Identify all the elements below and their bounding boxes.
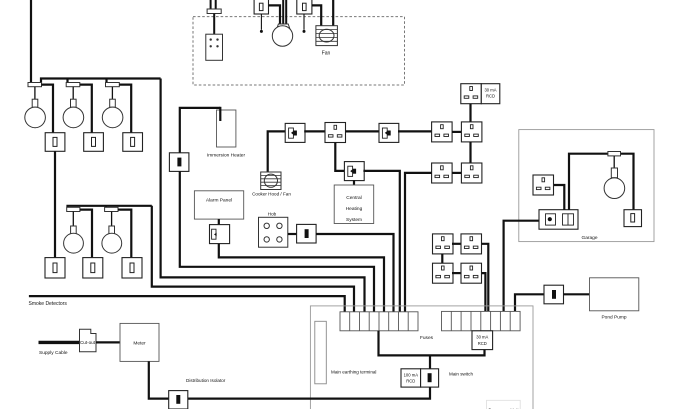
ceiling rose R4 bbox=[67, 207, 80, 211]
junction box JB1 bbox=[206, 34, 223, 60]
pond pump bbox=[590, 278, 639, 311]
svg-text:Pond Pump: Pond Pump bbox=[601, 315, 626, 321]
fused connection unit FCU1 bbox=[210, 225, 230, 244]
node pull knob S8 bbox=[303, 30, 306, 33]
wire rose R2 to switch S2 bbox=[80, 85, 92, 133]
wire lighting circuit 2 ceiling bus bbox=[68, 206, 152, 208]
socket SK11 garage bbox=[533, 175, 554, 195]
wire SK8 to fuses bbox=[482, 244, 489, 312]
wire switch S10 to socket SK2 bbox=[398, 130, 432, 132]
lamp L5 bbox=[102, 226, 122, 253]
socket SK9 bbox=[433, 263, 454, 283]
wire CH switch to boiler bbox=[353, 180, 355, 185]
wire immersion heater element stub bbox=[219, 107, 221, 121]
switch S1 bbox=[45, 133, 65, 152]
wire FCU2 to socket SK1 bbox=[304, 130, 325, 132]
socket SK2 bbox=[432, 122, 453, 142]
garage enclosure bbox=[519, 130, 654, 242]
ceiling rose R6 bbox=[207, 9, 221, 14]
wire rose R4 to switch S5 bbox=[80, 210, 92, 258]
wire SK9 to SK10 bbox=[452, 272, 461, 274]
supply cable bbox=[39, 341, 80, 344]
garage consumer unit bbox=[539, 210, 578, 230]
RCD 30mA unit bbox=[472, 331, 493, 350]
switch S13 garage light bbox=[624, 210, 642, 227]
immersion heater bbox=[217, 110, 236, 147]
lamp L2 bbox=[63, 99, 84, 128]
switch S14 pond pump bbox=[544, 285, 564, 304]
switch S4 bbox=[45, 258, 65, 278]
cut-out bbox=[80, 329, 97, 352]
wire rose R6 to heater unit bbox=[213, 14, 215, 35]
wire lighting circuit 1 return to fuses bbox=[161, 79, 365, 312]
wire switch S7 to lamp L6 bbox=[269, 5, 281, 24]
wire lighting circuit 2 return to fuses bbox=[152, 206, 354, 312]
cooker hood fan bbox=[261, 172, 281, 190]
ceiling rose R1 bbox=[28, 83, 42, 87]
wire bathroom rose feeds bbox=[211, 0, 216, 9]
ceiling rose R3 bbox=[106, 83, 120, 87]
wire main switch to meter tail bbox=[188, 387, 430, 399]
svg-text:Smoke Detectors: Smoke Detectors bbox=[29, 301, 68, 307]
ceiling rose R5 bbox=[105, 207, 118, 211]
svg-text:Fan: Fan bbox=[322, 51, 331, 57]
svg-text:Immersion Heater: Immersion Heater bbox=[207, 153, 246, 159]
socket SK5 bbox=[432, 163, 453, 183]
wire lamp L1 drop bbox=[34, 87, 36, 100]
ceiling rose R2 bbox=[66, 83, 80, 87]
socket SK7 bbox=[433, 234, 454, 254]
bathroom zone dashed boundary bbox=[193, 17, 405, 85]
wire lighting circuit 1 feed drop bbox=[30, 0, 32, 83]
wire alarm panel to FCU bbox=[218, 219, 220, 225]
wire switch S8 to fan bbox=[312, 5, 321, 25]
svg-text:Garage: Garage bbox=[582, 235, 598, 241]
svg-text:Meter: Meter bbox=[133, 341, 146, 347]
switch S11 central heating bbox=[344, 162, 364, 181]
wire switch S1 down to switch S4 bbox=[54, 151, 56, 257]
svg-text:Central: Central bbox=[346, 195, 361, 201]
central heating system bbox=[334, 185, 374, 224]
ceiling rose R7 bbox=[608, 152, 621, 156]
socket SK4 bbox=[461, 122, 482, 142]
main switch Q1 bbox=[421, 369, 439, 387]
fuse bank A bbox=[340, 312, 418, 331]
wire busbar bbox=[379, 331, 485, 369]
wire cooker hood spur bbox=[268, 131, 286, 172]
label Central Heating System bbox=[346, 195, 363, 223]
wire lamp L7 drop bbox=[613, 156, 615, 168]
wire socket SK1 down to CH switch bbox=[335, 143, 344, 171]
wire SK7 to SK8 bbox=[452, 243, 461, 245]
svg-text:100 mA: 100 mA bbox=[404, 372, 419, 377]
wire socket SK1 to switch S10 bbox=[346, 130, 380, 132]
wire lamp L4 drop bbox=[72, 212, 74, 227]
svg-text:30 mA: 30 mA bbox=[484, 88, 496, 93]
svg-text:System: System bbox=[346, 217, 362, 223]
fuse bank B bbox=[442, 311, 521, 330]
wire meter to isolator bbox=[149, 361, 169, 398]
wire lamp L3 drop bbox=[111, 87, 113, 100]
svg-text:Main earthing terminal: Main earthing terminal bbox=[331, 370, 376, 375]
switch S10 kitchen FCU bbox=[379, 123, 399, 142]
RCD 100mA unit bbox=[401, 369, 421, 387]
label box consumer unit cut off bbox=[487, 400, 521, 409]
fused connection unit FCU2 cooker hood bbox=[285, 123, 305, 142]
wire lamp L6 bundle bbox=[283, 0, 286, 24]
svg-text:RCD: RCD bbox=[486, 94, 495, 99]
meter bbox=[120, 323, 159, 361]
wire SK3 to SK4 bbox=[469, 104, 471, 122]
wire lighting circuit 1 ceiling bus bbox=[41, 79, 161, 84]
wire CH switch to fuses bbox=[363, 171, 399, 312]
lamp L4 bbox=[64, 226, 84, 253]
label 30 mA RCD box bbox=[481, 84, 500, 104]
lamp L1 bbox=[25, 99, 46, 128]
wire immersion heater feed loop bbox=[180, 108, 221, 153]
svg-text:Fuses: Fuses bbox=[420, 335, 434, 341]
socket SK8 bbox=[461, 234, 482, 254]
socket SK10 bbox=[461, 263, 482, 283]
consumer unit enclosure bbox=[310, 306, 533, 409]
hob bbox=[259, 217, 288, 247]
wire hob to cooker switch bbox=[288, 233, 297, 235]
alarm panel bbox=[194, 191, 243, 219]
wire fan feed bbox=[332, 0, 334, 26]
wire rose R3 to switch S3 bbox=[119, 85, 131, 133]
wire pond pump circuit bbox=[515, 294, 544, 311]
wire pull cord S8 bbox=[303, 14, 305, 30]
switch S6 bbox=[122, 258, 142, 278]
wire SK5 to SK6 bbox=[452, 172, 461, 174]
svg-text:Alarm Panel: Alarm Panel bbox=[206, 198, 232, 204]
wire lamp L2 drop bbox=[72, 87, 74, 100]
socket SK3 RCD protected bbox=[461, 84, 482, 104]
switch S7 pull-cord bbox=[254, 0, 268, 14]
wire SK7 to SK9 bbox=[441, 254, 443, 263]
svg-text:Cut-out: Cut-out bbox=[80, 340, 96, 345]
socket SK1 bbox=[325, 123, 346, 143]
lamp L3 bbox=[102, 99, 123, 128]
svg-text:30 mA: 30 mA bbox=[476, 335, 488, 340]
wire lamp L5 drop bbox=[111, 212, 113, 227]
svg-text:Cooker Hood / Fan: Cooker Hood / Fan bbox=[252, 192, 291, 197]
wire garage socket spur bbox=[554, 185, 565, 210]
svg-text:Main switch: Main switch bbox=[449, 371, 473, 376]
wire switch S14 to pond pump bbox=[564, 293, 590, 295]
switch S9 immersion isolator bbox=[169, 153, 189, 172]
socket SK6 bbox=[461, 163, 482, 183]
lamp L6 bbox=[272, 24, 292, 46]
switch S2 bbox=[84, 133, 104, 152]
fan M1 bbox=[316, 26, 338, 46]
switch S12 cooker bbox=[297, 224, 317, 243]
wire upstairs ring to fuses bbox=[405, 173, 432, 312]
main earthing terminal bar bbox=[315, 321, 327, 384]
svg-text:Heating: Heating bbox=[346, 206, 363, 212]
wire SK10 to fuses bbox=[482, 273, 486, 311]
switch S8 pull-cord bbox=[297, 0, 312, 14]
switch S3 bbox=[123, 133, 143, 152]
wire alarm circuit to fuses bbox=[219, 244, 384, 312]
svg-text:Supply Cable: Supply Cable bbox=[39, 350, 68, 356]
wire cut-out to meter bbox=[96, 341, 120, 343]
switch S15 distribution isolator bbox=[169, 391, 188, 409]
wire pull cord S7 bbox=[260, 14, 262, 30]
svg-text:Hob: Hob bbox=[268, 212, 277, 217]
svg-text:RCD: RCD bbox=[478, 341, 487, 346]
wire SK4 to SK6 bbox=[469, 142, 471, 163]
svg-text:Distribution Isolator: Distribution Isolator bbox=[186, 378, 226, 383]
lamp L7 bbox=[604, 168, 625, 199]
wire SK2 to SK4 bbox=[452, 131, 461, 133]
wire rose R1 to switch S1 bbox=[42, 85, 54, 133]
wire rose R5 to switch S6 bbox=[118, 210, 131, 258]
wire cooker circuit to fuses bbox=[316, 234, 393, 312]
wire immersion circuit to fuses bbox=[180, 171, 374, 311]
wire garage supply bbox=[504, 221, 539, 312]
switch S5 bbox=[83, 258, 103, 278]
wire smoke detector circuit bbox=[29, 296, 345, 312]
node pull knob S7 bbox=[260, 30, 263, 33]
wire garage unit to lighting bbox=[569, 154, 634, 210]
svg-text:RCD: RCD bbox=[406, 379, 415, 384]
